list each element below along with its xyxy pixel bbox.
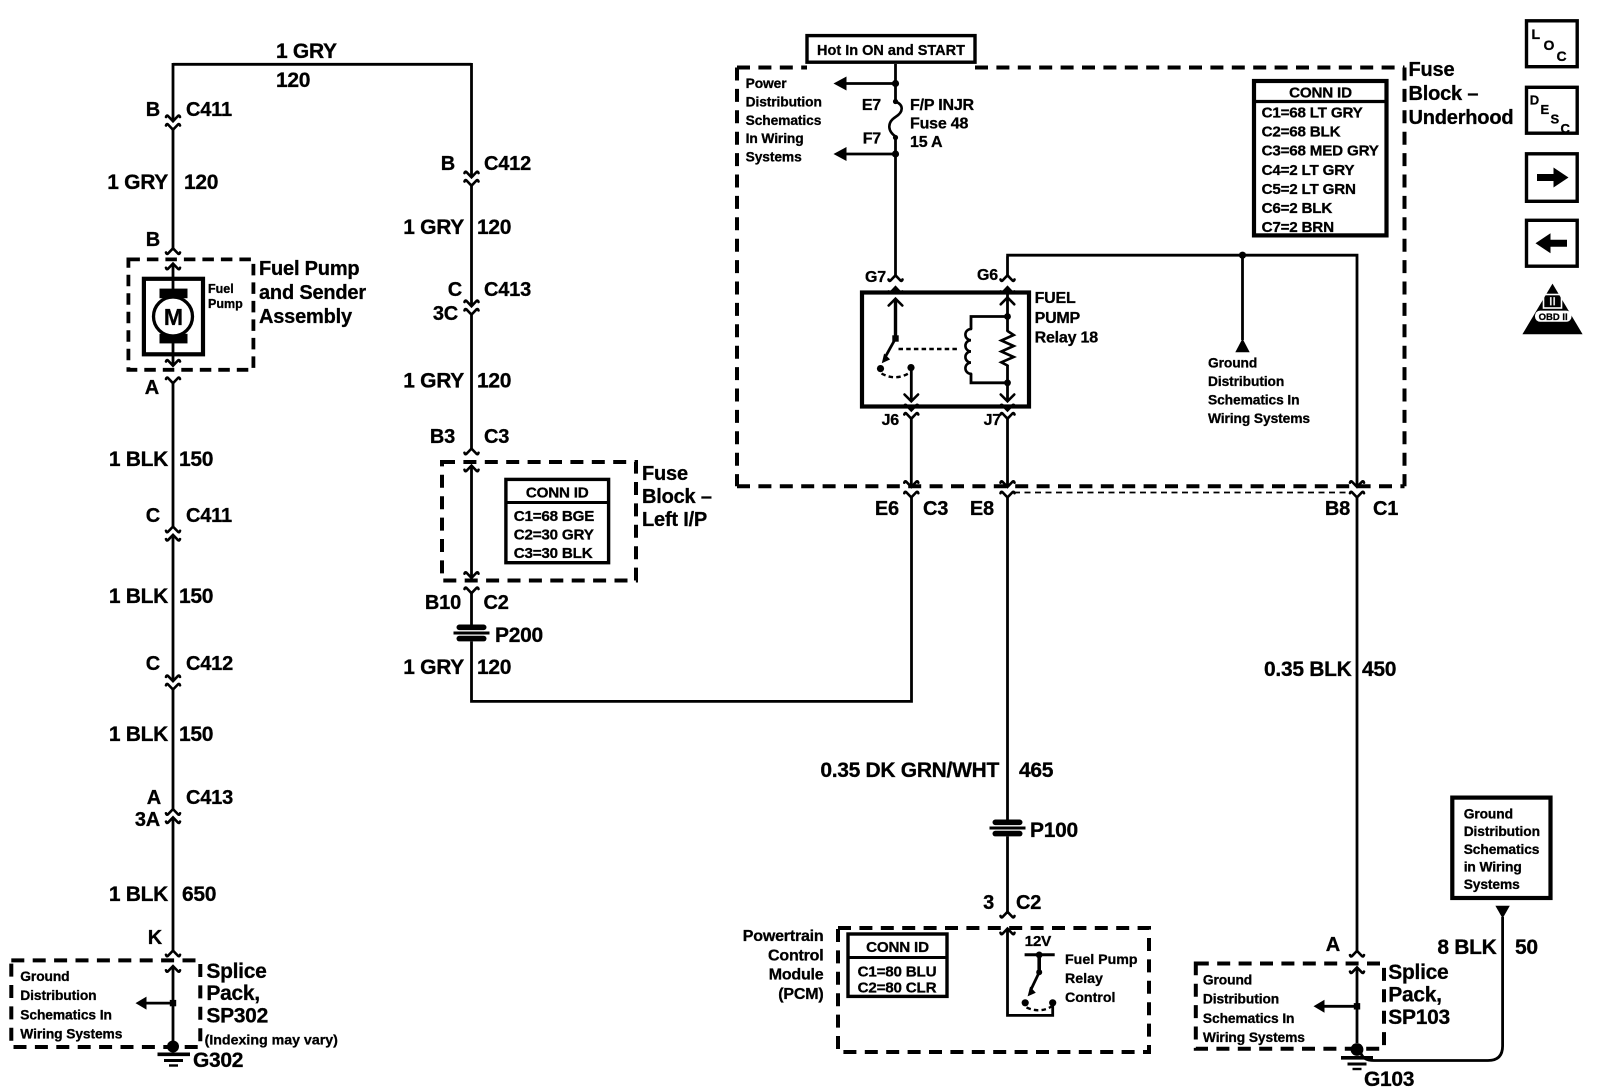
svg-text:J7: J7 [984,412,1002,429]
svg-text:150: 150 [179,723,213,746]
wire pin B into motor [172,265,175,293]
wire P100 to PCM pin 3 [1006,836,1009,911]
svg-text:15 A: 15 A [910,134,943,151]
svg-text:50: 50 [1515,936,1538,959]
relay switch arm [877,287,902,372]
fuse block underhood dashed box [737,68,1405,487]
svg-text:1 BLK: 1 BLK [109,448,168,471]
svg-text:Pack,: Pack, [1388,984,1441,1007]
svg-text:Powertrain: Powertrain [743,928,824,945]
label Ground Distribution Schematics In Wiring Systems (SP103) [1203,973,1305,1045]
off-page arrow to power distribution (lower) [834,147,900,161]
wire 1 BLK 150 segment C412 to C413 [172,689,175,810]
svg-text:C412: C412 [186,653,233,675]
svg-text:Ground: Ground [1464,806,1513,821]
svg-text:1 GRY: 1 GRY [403,370,464,393]
svg-text:C411: C411 [186,505,232,527]
svg-text:0.35 BLK: 0.35 BLK [1264,658,1352,681]
svg-text:Schematics: Schematics [1464,842,1540,857]
svg-text:120: 120 [477,656,511,679]
wire motor to pin A [172,343,175,366]
svg-text:B: B [146,99,160,121]
svg-text:FUEL: FUEL [1035,290,1076,307]
svg-text:Block –: Block – [642,486,712,508]
connector C1 pin B8 [1325,481,1398,520]
icon OBD II badge [1522,284,1582,335]
connector C413 pin A / 3A [135,787,233,831]
svg-text:120: 120 [477,370,511,393]
label 1 GRY 120 [107,171,218,194]
wire J6 to E6 [910,419,913,487]
svg-text:B3: B3 [430,426,455,448]
relay K18 FUEL PUMP Relay box [862,293,1029,407]
svg-text:D: D [1530,93,1539,108]
label Power Distribution Schematics in Wiring Systems [746,76,822,165]
svg-text:A: A [147,787,161,809]
wire to C411 pin B [172,63,175,121]
icon back arrow button [1527,220,1578,266]
node A fuel pump terminal [145,360,180,399]
connector C3 pin E8 [970,481,1015,520]
svg-text:450: 450 [1362,658,1396,681]
svg-text:A: A [1326,934,1340,956]
svg-text:G103: G103 [1364,1068,1414,1090]
svg-text:Ground: Ground [1203,973,1252,988]
fuse 48 F/P INJR 15A [862,97,975,151]
svg-text:J6: J6 [882,412,900,429]
wire fuse to second tap [894,138,897,155]
wire through fuse block left I/P [470,467,473,577]
svg-text:(Indexing may vary): (Indexing may vary) [205,1033,339,1049]
connector C411 pin B [146,99,232,130]
wire 1 GRY down right branch [470,63,473,177]
svg-text:C411: C411 [186,99,232,121]
svg-text:Distribution: Distribution [1203,992,1279,1007]
relay coil [965,287,1014,386]
relay coil output to J7 [1001,383,1015,402]
label 1 GRY 120 [403,370,511,393]
connector C411 pin C [146,505,232,540]
off-page reference arrow into SP302 [136,997,172,1010]
svg-text:1 BLK: 1 BLK [109,585,168,608]
label FUEL PUMP Relay 18 [1035,290,1099,347]
svg-text:1 BLK: 1 BLK [109,883,168,906]
svg-text:II: II [1549,295,1556,309]
svg-text:Fuse 48: Fuse 48 [910,116,968,133]
svg-text:B: B [146,229,160,251]
wire fuse output to relay pin G7 [894,154,897,275]
svg-text:465: 465 [1019,759,1054,782]
svg-text:0.35 DK GRN/WHT: 0.35 DK GRN/WHT [820,759,999,782]
svg-text:Underhood: Underhood [1409,107,1514,129]
svg-text:Pump: Pump [208,297,243,311]
svg-text:C1=80 BLU: C1=80 BLU [858,964,937,981]
wire 1 GRY 120 segment C413 to fuse block [470,315,473,450]
svg-text:Splice: Splice [206,960,266,983]
label Splice Pack, SP103 [1388,961,1450,1029]
label Hot In ON and START [807,36,975,63]
connector C2 pin B10 [425,572,509,614]
label Fuel Pump Relay Control [1065,952,1138,1006]
wire A to ground G103 [1356,968,1359,1043]
svg-text:L: L [1532,26,1541,42]
svg-text:3C: 3C [433,303,458,325]
svg-text:F/P INJR: F/P INJR [910,97,975,114]
svg-text:In Wiring: In Wiring [746,131,804,146]
svg-text:Pack,: Pack, [206,982,259,1005]
label 1 BLK 150 [109,585,213,608]
label Ground Distribution Schematics In Wiring Systems (SP302) [20,969,122,1041]
off-page reference to ground distribution schematics [1235,255,1249,352]
connector C2 pin 3 [983,892,1041,934]
svg-text:Hot In ON and START: Hot In ON and START [817,43,965,59]
svg-text:P200: P200 [495,624,543,647]
svg-text:M: M [164,304,183,330]
label Powertrain Control Module (PCM) [743,928,824,1003]
wire PCM driver path [1008,930,1053,1016]
svg-text:C7=2 BRN: C7=2 BRN [1262,219,1334,236]
svg-text:Module: Module [769,967,824,984]
svg-text:150: 150 [179,585,213,608]
svg-text:K: K [148,927,163,949]
svg-text:C2=30 GRY: C2=30 GRY [514,527,594,544]
svg-text:Schematics In: Schematics In [20,1007,112,1022]
svg-text:B8: B8 [1325,498,1350,520]
svg-text:Fuel Pump: Fuel Pump [259,258,359,280]
fuse block left I/P dashed box [442,462,636,581]
splice P100 [990,819,1078,842]
svg-text:120: 120 [477,216,511,239]
svg-text:and Sender: and Sender [259,282,366,304]
svg-text:SP103: SP103 [1388,1006,1450,1029]
wire 0.35 DK GRN/WHT 465 E8 to P100 [1006,497,1009,820]
wire 8 BLK 50 to G103 [1361,917,1503,1061]
wire C2 to P200 [470,593,473,626]
svg-text:C1=68 BGE: C1=68 BGE [514,508,595,525]
label 0.35 BLK 450 [1264,658,1396,681]
label 1 GRY 120 [403,216,511,239]
svg-text:OBD II: OBD II [1539,312,1568,323]
svg-text:(PCM): (PCM) [778,986,823,1003]
icon next arrow button [1527,154,1578,202]
label 0.35 DK GRN/WHT 465 [820,759,1053,782]
splice P200 [454,624,543,647]
svg-text:E7: E7 [862,97,881,114]
svg-text:1 BLK: 1 BLK [109,723,168,746]
label 1 GRY (top) [276,40,337,63]
ground distribution schematics solid box [1452,798,1550,898]
label 1 BLK 150 [109,448,213,471]
wire 0.35 BLK 450 B8 to SP103 [1356,497,1359,951]
svg-text:O: O [1544,37,1555,53]
connector C412 pin C [146,653,233,689]
svg-text:B10: B10 [425,592,461,614]
svg-text:C412: C412 [484,153,531,175]
svg-text:Fuse: Fuse [1409,59,1455,81]
fuel pump motor M1 [144,279,243,355]
off-page reference arrow into SP103 [1314,1000,1356,1013]
svg-text:B: B [441,153,455,175]
node A SP103 terminal [1326,934,1364,973]
wire coil feed to ground distribution and B8 [1006,255,1357,487]
label 1 BLK 650 [109,883,216,906]
svg-text:Ground: Ground [20,969,69,984]
icon LOC button [1527,21,1578,67]
svg-text:Left I/P: Left I/P [642,509,707,531]
svg-text:Schematics In: Schematics In [1208,393,1300,408]
svg-text:Distribution: Distribution [746,94,822,109]
ground G103 [1341,1043,1373,1069]
CONN ID table (left I/P) [506,479,609,562]
svg-text:CONN ID: CONN ID [1289,85,1352,102]
svg-text:Distribution: Distribution [1464,824,1540,839]
connector pin J7 [984,405,1015,429]
svg-text:C2: C2 [1016,892,1041,914]
svg-text:PUMP: PUMP [1035,310,1081,327]
connector C412 pin B [441,153,531,186]
label 120 (top) [276,69,310,92]
svg-text:C413: C413 [484,279,531,301]
svg-text:C3: C3 [484,426,509,448]
svg-text:S: S [1551,112,1560,127]
svg-text:C: C [146,653,160,675]
svg-text:Relay: Relay [1065,971,1103,987]
connector C3 pin B3 [430,426,509,471]
svg-text:Control: Control [1065,990,1115,1006]
svg-text:C: C [448,279,462,301]
node B fuel pump terminal [146,229,180,269]
svg-text:Relay 18: Relay 18 [1035,330,1099,347]
svg-text:C2=80 CLR: C2=80 CLR [858,980,937,997]
svg-text:CONN ID: CONN ID [866,939,929,956]
relay resistor [1001,317,1013,383]
svg-text:Schematics: Schematics [746,113,822,128]
connector pin G6 [977,267,1014,293]
label Fuse Block - Left I/P [642,463,712,531]
fuel pump relay control switch 12V [1022,933,1057,1010]
svg-text:Block –: Block – [1409,83,1479,105]
svg-text:3A: 3A [135,809,160,831]
wire 1 BLK 150 segment A to C411 [172,383,175,527]
wire 1 GRY 120 from P200 to underhood E6 [472,497,912,701]
svg-text:1 GRY: 1 GRY [276,40,337,63]
wire hot feed down from dashed edge [894,64,897,100]
svg-text:C1: C1 [1373,498,1398,520]
svg-text:Schematics In: Schematics In [1203,1011,1295,1026]
label 1 GRY 120 [403,656,511,679]
svg-text:C5=2 LT GRN: C5=2 LT GRN [1262,181,1356,198]
svg-text:Wiring Systems: Wiring Systems [1208,411,1310,426]
svg-text:C2=68 BLK: C2=68 BLK [1262,124,1341,141]
svg-text:E: E [1541,102,1550,117]
svg-text:Wiring Systems: Wiring Systems [20,1026,122,1041]
off-page reference from ground distribution box [1495,906,1509,919]
powertrain control module dashed box [838,928,1149,1052]
svg-text:12V: 12V [1025,933,1052,950]
svg-text:C3: C3 [923,498,948,520]
svg-text:Fuse: Fuse [642,463,688,485]
svg-text:A: A [145,377,159,399]
svg-text:C4=2 LT GRY: C4=2 LT GRY [1262,162,1355,179]
svg-text:F7: F7 [863,131,882,148]
svg-text:P100: P100 [1030,819,1078,842]
connector pin J6 [882,405,919,429]
connector C1 face line [1014,492,1352,494]
svg-text:E6: E6 [875,498,899,520]
svg-text:C: C [1561,121,1571,136]
wire 1 GRY 120 top horizontal feed [173,63,472,66]
fuel pump and sender assembly dashed box [128,259,253,369]
svg-text:120: 120 [276,69,310,92]
svg-text:Distribution: Distribution [20,988,96,1003]
svg-text:G6: G6 [977,267,998,284]
junction dot ground distribution tap [1239,252,1246,259]
svg-text:650: 650 [182,883,216,906]
label Fuel Pump and Sender Assembly [259,258,366,328]
label 1 BLK 150 [109,723,213,746]
svg-text:C2: C2 [484,592,509,614]
svg-text:in Wiring: in Wiring [1464,860,1522,875]
svg-text:120: 120 [184,171,218,194]
svg-text:C6=2 BLK: C6=2 BLK [1262,200,1333,217]
off-page arrow to power distribution (upper) [834,77,900,91]
label Fuse Block - Underhood [1409,59,1514,129]
svg-text:CONN ID: CONN ID [526,485,589,502]
svg-text:Assembly: Assembly [259,306,353,328]
wire J7 to E8 [1006,419,1009,487]
relay switch throw contact to J6 [882,364,919,401]
wire K to ground G302 [172,967,175,1044]
svg-text:E8: E8 [970,498,994,520]
svg-text:C: C [1557,48,1567,64]
svg-text:1 GRY: 1 GRY [107,171,168,194]
wire 1 GRY 120 to fuel pump [172,130,175,249]
splice pack SP103 dashed box [1196,964,1384,1049]
svg-text:Ground: Ground [1208,355,1257,370]
svg-text:1 GRY: 1 GRY [403,216,464,239]
wire 1 GRY 120 segment C412 to C413 [470,186,473,306]
svg-text:Systems: Systems [1464,877,1520,892]
junction SP302 [170,1000,176,1006]
svg-text:Fuel: Fuel [208,282,234,296]
relay mechanical link dashed [899,348,959,350]
ground G302 [158,1041,191,1066]
svg-text:Wiring Systems: Wiring Systems [1203,1030,1305,1045]
label G302 [193,1049,243,1072]
splice pack SP302 dashed box [11,960,200,1047]
svg-text:Distribution: Distribution [1208,374,1284,389]
svg-text:C3=68 MED GRY: C3=68 MED GRY [1262,143,1379,160]
CONN ID table (underhood) [1254,81,1387,236]
connector C3 pin E6 [875,481,948,520]
svg-text:150: 150 [179,448,213,471]
icon DESC button [1527,87,1578,136]
svg-text:Splice: Splice [1388,961,1448,984]
label G103 [1364,1068,1414,1090]
svg-text:Fuel Pump: Fuel Pump [1065,952,1138,968]
label Ground Distribution Schematics In Wiring Systems (middle) [1208,355,1310,426]
wire G6 riser to coil feed [1006,257,1009,276]
svg-text:Power: Power [746,76,788,91]
label 8 BLK 50 [1437,936,1537,959]
svg-text:G302: G302 [193,1049,243,1072]
wire 1 BLK 150 segment C411 to C412 [172,536,175,681]
svg-text:G7: G7 [865,269,886,286]
svg-text:Systems: Systems [746,150,802,165]
svg-text:1 GRY: 1 GRY [403,656,464,679]
junction SP103 [1354,1003,1360,1009]
node K splice pack terminal [148,927,180,972]
svg-text:C1=68 LT GRY: C1=68 LT GRY [1262,105,1363,122]
svg-text:Control: Control [768,947,823,964]
svg-text:3: 3 [983,892,994,914]
svg-text:SP302: SP302 [206,1005,268,1028]
connector C413 pin C / 3C [433,279,531,325]
CONN ID table (PCM) [848,934,947,997]
wire 1 BLK 650 segment to splice pack [172,818,175,951]
svg-text:C: C [146,505,160,527]
svg-text:8 BLK: 8 BLK [1437,936,1496,959]
svg-text:C413: C413 [186,787,233,809]
label Splice Pack, SP302 [205,960,339,1049]
connector pin G7 [865,269,902,293]
svg-text:C3=30 BLK: C3=30 BLK [514,545,593,562]
